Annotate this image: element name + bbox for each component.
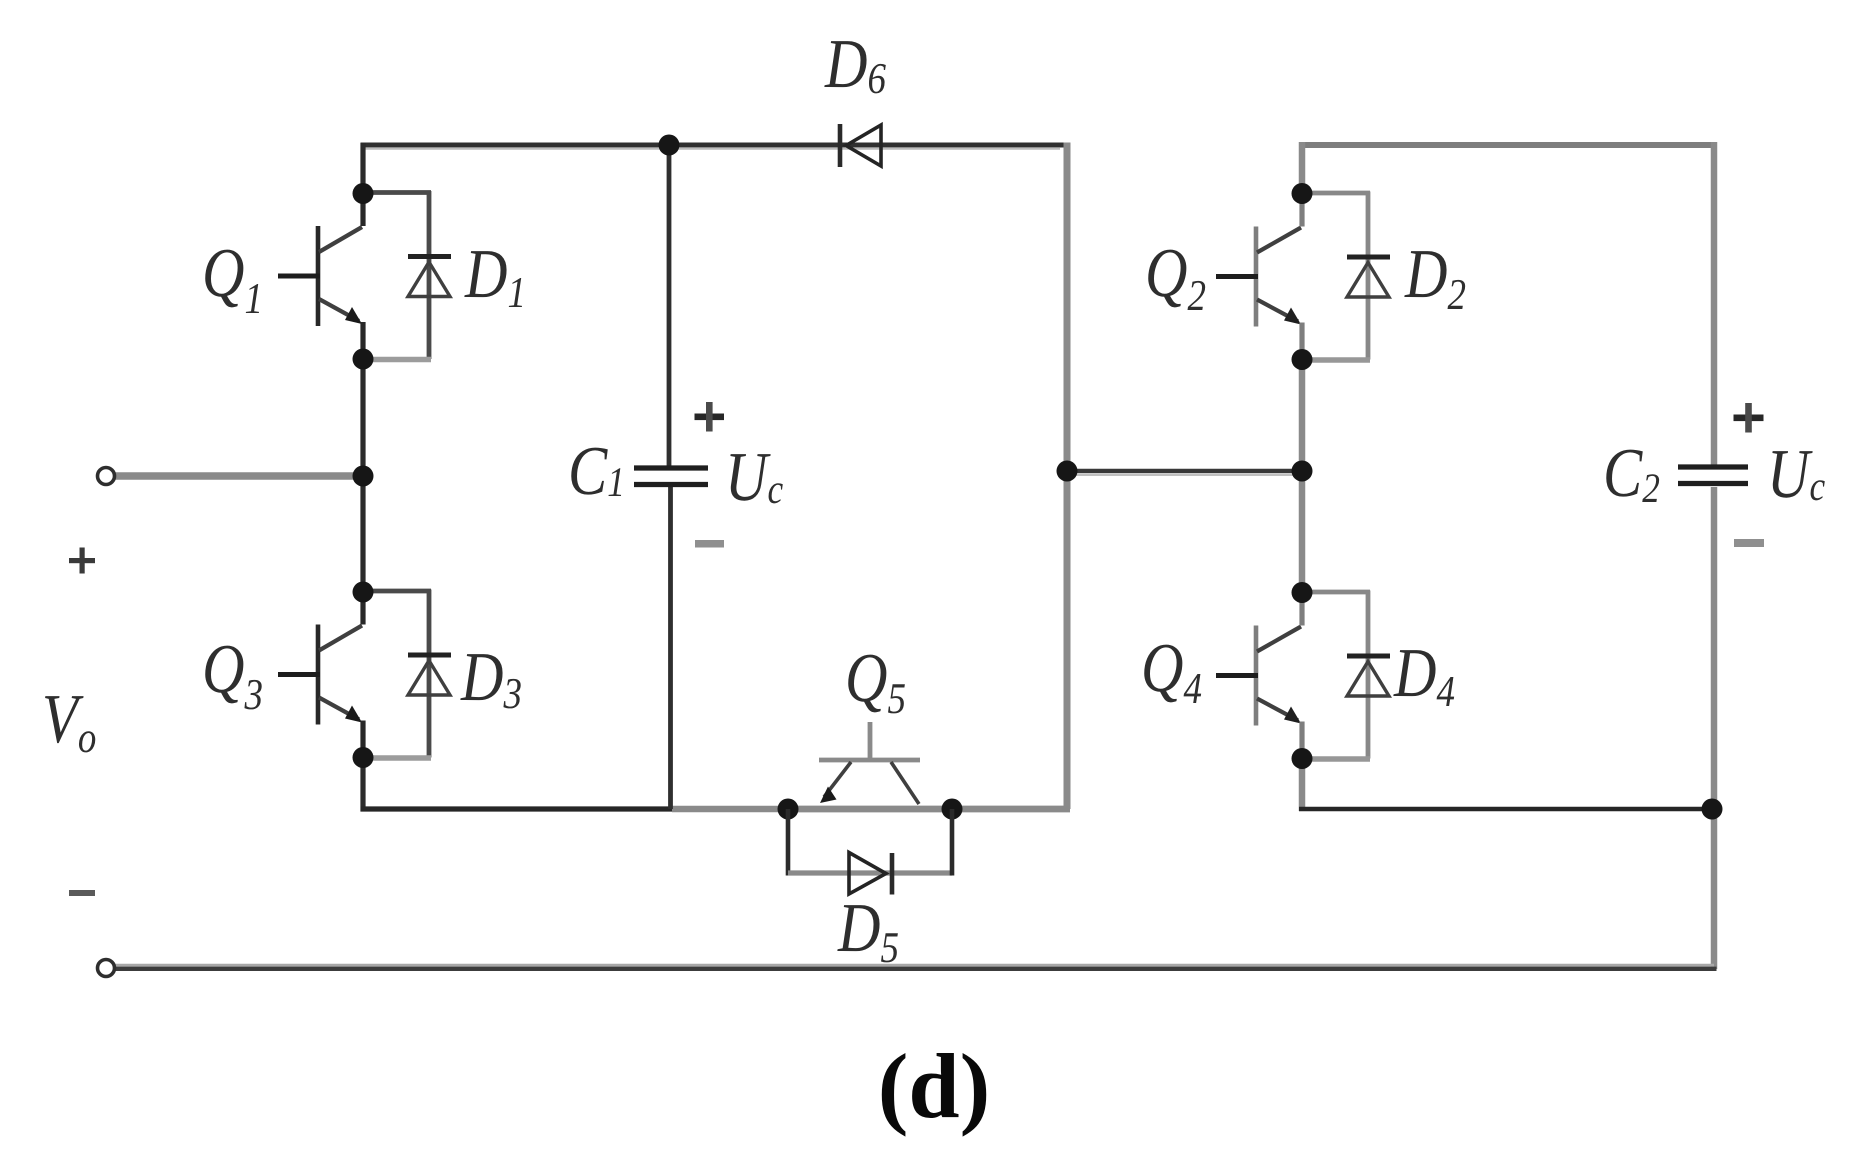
node: top rail / C1 branch junction xyxy=(659,135,680,156)
node: Q3 collector junction xyxy=(353,582,374,603)
wire: top-right rail (Q2 leg to right rail) xyxy=(1299,142,1717,148)
wire: D5 left leg down xyxy=(786,809,791,876)
node: left leg midpoint (Vo+ connection) xyxy=(353,466,374,487)
diode D5 triangle (pointing right) xyxy=(849,853,886,895)
wire: left leg bottom stub (Q3 emitter down to bottom mid wire) xyxy=(360,757,365,812)
wire: right leg bottom stub (Q4 emitter down) xyxy=(1299,758,1306,811)
wire: left leg between Q1 emitter and midpoint node xyxy=(360,359,365,476)
label + (input polarity) xyxy=(69,548,95,574)
wire: right rail upper (top rail down to C2 top plate) xyxy=(1711,142,1718,466)
capacitor C1 top plate xyxy=(634,465,708,470)
svg-text:(d): (d) xyxy=(878,1035,990,1137)
transistor Q5 base bar xyxy=(819,758,920,763)
wire: midpoint link between the two bridge legs xyxy=(1067,469,1301,474)
transistor Q3 xyxy=(278,591,363,759)
wire: C1 branch upper (top rail node down to C1 top plate) xyxy=(667,145,672,466)
wire: mid vertical rail (D6/top rail down to bottom mid wire) xyxy=(1064,143,1071,810)
wire: midpoint link light underside xyxy=(1067,474,1301,476)
wire: D5 right leg down xyxy=(950,809,955,876)
wire: bottom mid wire from left leg to C1 bottom node xyxy=(361,806,673,811)
node: Q1 collector junction xyxy=(353,183,374,204)
wire: right rail lower (C2 bottom plate to bottom rail) xyxy=(1711,487,1718,969)
wire: bottom mid wire C1 node to D5 left node xyxy=(672,806,788,813)
transistor Q2 xyxy=(1216,193,1302,361)
terminal: Vo- input xyxy=(98,960,115,977)
node: right leg midpoint xyxy=(1292,461,1313,482)
node: Q4 collector junction xyxy=(1292,582,1313,603)
diode D1 (antiparallel across Q1) xyxy=(363,191,451,360)
label C2 polarity - xyxy=(1734,539,1764,547)
diode D2 (antiparallel across Q2) xyxy=(1302,192,1390,361)
node: Q3 emitter junction xyxy=(353,747,374,768)
wire: Vo+ input lead (terminal to left leg midpoint) xyxy=(112,472,363,480)
label - (input polarity) xyxy=(69,890,95,896)
capacitor C2 bottom plate xyxy=(1678,481,1748,486)
wire: right leg between midpoint node and Q4 collector xyxy=(1299,471,1306,593)
wire: bottom rail dark lower edge xyxy=(112,967,1717,971)
transistor Q5 base lead xyxy=(868,722,873,760)
wire: right leg between Q2 emitter and midpoint node xyxy=(1299,360,1306,471)
node: mid rail to link junction xyxy=(1057,461,1078,482)
transistor Q5 emitter diagonal xyxy=(824,762,851,797)
wire: Q4 emitter wire to right rail junction xyxy=(1299,807,1712,812)
node: D5 right junction xyxy=(942,799,963,820)
diode D3 (antiparallel across Q3) xyxy=(363,590,451,759)
label C1 polarity + xyxy=(695,402,725,432)
diode D4 (antiparallel across Q4) xyxy=(1302,591,1390,760)
wire: left bridge-leg top stub (top rail to Q1 collector node) xyxy=(360,143,365,194)
wire: bottom rail (Vo- terminal to right rail) gray top edge xyxy=(112,964,1714,967)
wire: bottom mid wire through Q5 (D5 left node to D5 right node) xyxy=(788,806,952,813)
node: Q4 emitter junction xyxy=(1292,748,1313,769)
wire: top-left rail from Q1 leg to mid vertical rail xyxy=(361,143,1068,148)
label C1 polarity - xyxy=(695,540,724,548)
node: D5 left junction xyxy=(778,799,799,820)
label C2 polarity + xyxy=(1734,403,1764,433)
transistor Q5 emitter arrowhead xyxy=(820,787,837,804)
transistor Q1 xyxy=(278,192,363,360)
node: Q4 emitter wire on right rail xyxy=(1702,799,1723,820)
node: Q2 emitter junction xyxy=(1292,349,1313,370)
capacitor C1 bottom plate xyxy=(634,482,708,487)
wire: C1 branch lower (C1 bottom plate down to bottom mid node) xyxy=(668,487,673,810)
diode D6 cathode bar xyxy=(838,124,843,167)
capacitor C2 top plate xyxy=(1678,464,1748,469)
node: Q1 emitter junction xyxy=(353,349,374,370)
wire: bottom mid wire D5 right node to mid vertical rail xyxy=(952,806,1070,813)
wire: D5 bottom wire (under diode) xyxy=(788,870,952,875)
wire: top rail light underside xyxy=(363,148,1060,150)
diode D6 triangle (pointing left) xyxy=(846,125,881,166)
transistor Q5 collector diagonal xyxy=(891,762,919,804)
wire: right bridge-leg top stub (top-right rail to Q2 collector node) xyxy=(1299,142,1306,194)
transistor Q4 xyxy=(1216,592,1302,760)
node: Q2 collector junction xyxy=(1292,183,1313,204)
wire: left leg between midpoint node and Q3 collector xyxy=(360,476,365,593)
diode D5 cathode bar xyxy=(890,853,895,895)
terminal: Vo+ input xyxy=(98,468,115,485)
